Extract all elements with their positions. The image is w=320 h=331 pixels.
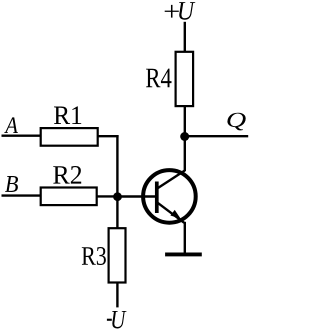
wire R4 to collector node xyxy=(184,106,186,137)
input A label xyxy=(4,117,18,133)
wire node down to collector xyxy=(184,137,186,172)
transistor Q1 body circle xyxy=(143,170,196,223)
input B label xyxy=(5,176,18,192)
ground xyxy=(165,252,202,256)
label R1 xyxy=(54,106,81,124)
transistor collector line xyxy=(157,170,185,188)
wire node to output Q xyxy=(185,135,248,137)
wire base node down to R3 xyxy=(116,197,118,229)
wire corner down to base node xyxy=(116,135,118,197)
net +U label xyxy=(165,2,196,20)
transistor emitter line xyxy=(157,202,184,223)
label R2 xyxy=(53,166,81,184)
wire +U to R4 xyxy=(184,22,186,52)
junction node at base xyxy=(113,192,122,201)
wire R2 to base node xyxy=(97,195,118,197)
wire base node to transistor base xyxy=(117,195,155,197)
output Q label xyxy=(227,113,245,131)
resistor R1 xyxy=(41,128,98,146)
net -U label xyxy=(107,311,127,329)
wire input A xyxy=(2,134,41,136)
wire R1 to corner xyxy=(98,135,119,137)
junction node at collector xyxy=(180,132,189,141)
wire emitter to ground xyxy=(184,222,186,253)
resistor R4 xyxy=(176,52,194,106)
label R3 xyxy=(82,247,106,265)
transistor base bar xyxy=(155,182,159,214)
resistor R2 xyxy=(41,188,97,206)
resistor R3 xyxy=(109,228,126,282)
wire input B xyxy=(2,194,41,196)
label R4 xyxy=(146,69,172,88)
transistor emitter arrowhead xyxy=(170,210,180,219)
wire R3 to -U xyxy=(116,283,118,307)
